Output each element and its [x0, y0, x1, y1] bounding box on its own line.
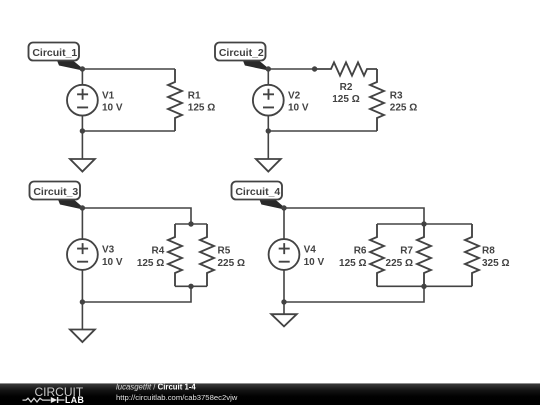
voltage source V1 [67, 69, 98, 131]
svg-text:V210 V: V210 V [288, 90, 309, 113]
svg-text:R8325 Ω: R8325 Ω [482, 246, 509, 269]
wire bottom rail circuit 2 [268, 130, 377, 132]
flag pointer Circuit_4 [258, 197, 284, 209]
wire parallel bottom bar circuit 4 [377, 285, 472, 287]
resistor R4 [168, 224, 182, 286]
wire bottom rail circuit 3 [82, 286, 191, 302]
voltage source V2 [253, 69, 284, 131]
net label box Circuit_3 [30, 182, 81, 200]
net label box Circuit_4 [232, 182, 283, 200]
resistor R8 [465, 224, 479, 286]
net label box Circuit_1 [29, 43, 80, 61]
node junction top left circuit 3 [80, 205, 85, 210]
svg-text:Circuit_1: Circuit_1 [32, 47, 77, 59]
svg-text:lucasgetfit / Circuit 1-4: lucasgetfit / Circuit 1-4 [116, 382, 196, 391]
wire top rail circuit 4 [284, 208, 424, 224]
svg-text:http://circuitlab.com/cab3758e: http://circuitlab.com/cab3758ec2vjw [116, 393, 238, 402]
svg-text:R5225 Ω: R5225 Ω [218, 246, 245, 269]
node junction parallel top circuit 3 [188, 221, 193, 226]
ground circuit 3 [70, 302, 95, 342]
logo diode symbol [51, 397, 65, 403]
resistor R5 [200, 224, 214, 286]
wire parallel top bar circuit 3 [175, 223, 207, 225]
svg-text:Circuit_3: Circuit_3 [33, 186, 78, 198]
ground circuit 4 [271, 302, 296, 326]
svg-text:R7225 Ω: R7225 Ω [386, 246, 414, 269]
node junction parallel bottom circuit 3 [188, 284, 193, 289]
flag pointer Circuit_3 [57, 197, 83, 209]
footer bar top edge [0, 383, 540, 385]
svg-text:V110 V: V110 V [102, 90, 123, 113]
ground circuit 2 [256, 131, 281, 172]
svg-text:Circuit_2: Circuit_2 [219, 47, 264, 59]
resistor R1 [168, 69, 182, 131]
wire parallel top bar circuit 4 [377, 223, 472, 225]
wire bottom rail circuit 4 [284, 286, 424, 302]
resistor R6 [370, 224, 384, 286]
node junction parallel bottom circuit 4 [421, 284, 426, 289]
node junction R2 left circuit 2 [312, 66, 317, 71]
svg-text:V410 V: V410 V [304, 245, 325, 268]
node junction bottom circuit 2 [266, 128, 271, 133]
svg-text:R6125 Ω: R6125 Ω [339, 246, 367, 269]
net label box Circuit_2 [215, 43, 266, 61]
svg-text:LAB: LAB [65, 395, 84, 405]
node junction top left circuit 4 [281, 205, 286, 210]
svg-text:Circuit_4: Circuit_4 [235, 186, 280, 198]
node junction bottom circuit 3 [80, 299, 85, 304]
wire top rail circuit 2 [268, 68, 314, 70]
voltage source V4 [269, 208, 300, 302]
svg-text:R3225 Ω: R3225 Ω [390, 90, 417, 113]
logo resistor zigzag [23, 398, 51, 402]
wire parallel bottom bar circuit 3 [175, 285, 207, 287]
node junction top left circuit 2 [266, 66, 271, 71]
node junction parallel top circuit 4 [421, 221, 426, 226]
resistor R3 [370, 69, 384, 131]
node junction bottom circuit 1 [80, 128, 85, 133]
footer bar background [0, 383, 540, 405]
flag pointer Circuit_2 [242, 58, 269, 70]
svg-text:R4125 Ω: R4125 Ω [137, 246, 165, 269]
voltage source V3 [67, 208, 98, 302]
wire top rail circuit 3 [82, 208, 191, 224]
resistor R7 [417, 224, 431, 286]
resistor R2 [315, 62, 377, 75]
flag pointer Circuit_1 [56, 58, 83, 70]
node junction bottom circuit 4 [281, 299, 286, 304]
svg-text:R2125 Ω: R2125 Ω [332, 82, 359, 105]
node junction top circuit 1 [80, 66, 85, 71]
wire bottom rail circuit 1 [82, 130, 175, 132]
ground circuit 1 [70, 131, 95, 172]
svg-text:R1125 Ω: R1125 Ω [188, 90, 215, 113]
wire top rail circuit 1 [82, 68, 175, 70]
svg-text:V310 V: V310 V [102, 245, 123, 268]
